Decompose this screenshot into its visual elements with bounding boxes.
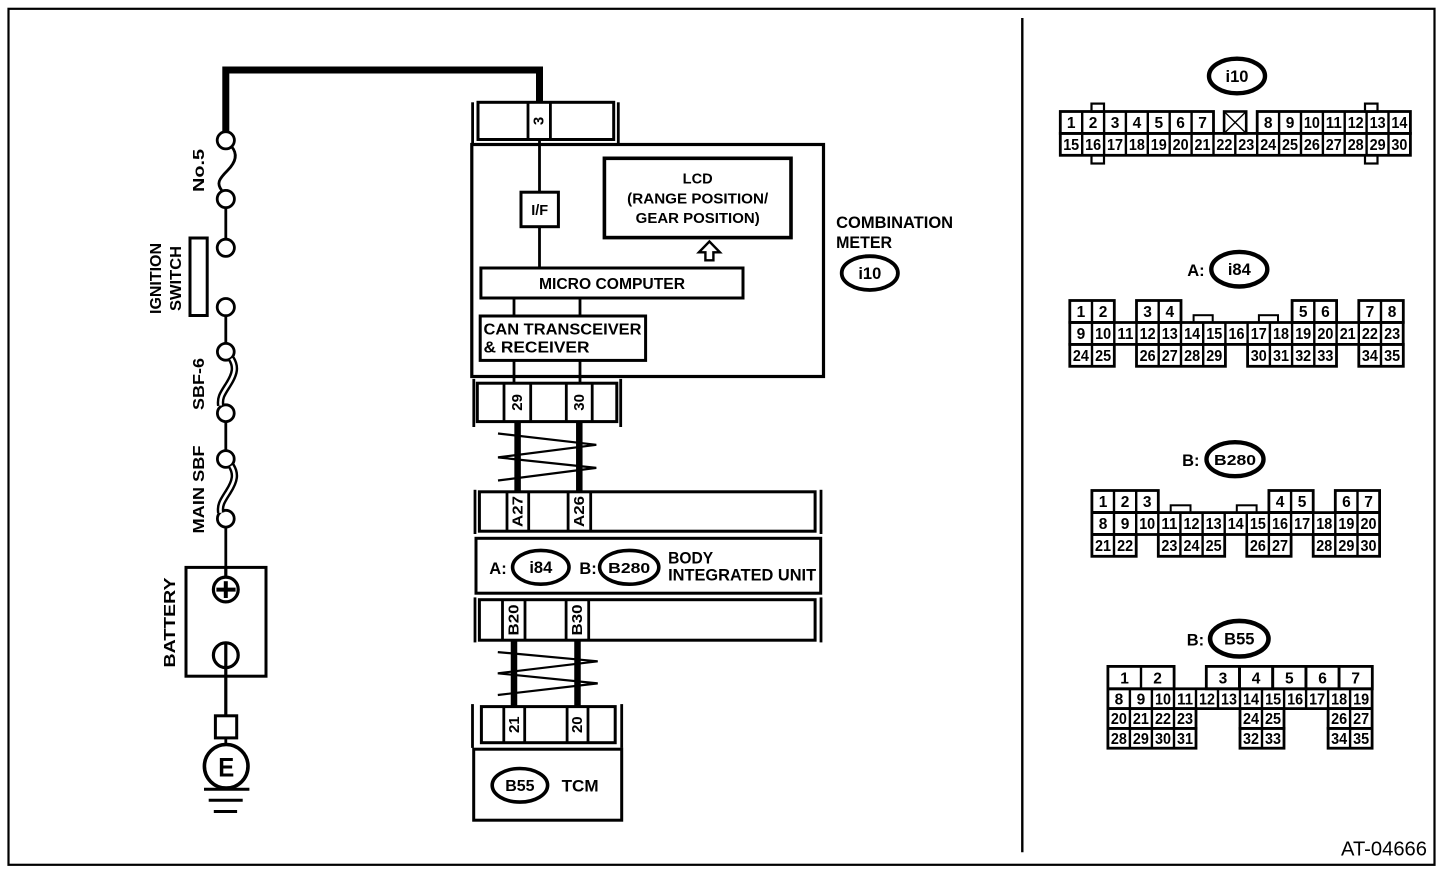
svg-text:B:: B:	[1182, 452, 1199, 470]
svg-text:10: 10	[1095, 326, 1111, 343]
svg-text:21: 21	[1340, 326, 1356, 343]
svg-text:27: 27	[1353, 711, 1369, 728]
connector A27/A26 (body integrated unit, top)	[475, 490, 821, 534]
svg-text:9: 9	[1121, 516, 1130, 533]
svg-text:28: 28	[1111, 731, 1127, 748]
svg-text:2: 2	[1099, 304, 1108, 321]
svg-text:5: 5	[1285, 670, 1294, 687]
svg-text:10: 10	[1304, 115, 1320, 132]
body integrated unit box	[476, 538, 821, 593]
wire	[224, 527, 227, 567]
svg-text:GEAR POSITION): GEAR POSITION)	[636, 211, 760, 227]
connector rails	[474, 597, 477, 642]
svg-text:9: 9	[1077, 326, 1086, 343]
svg-text:TCM: TCM	[562, 777, 599, 795]
svg-text:13: 13	[1221, 691, 1237, 708]
svg-text:18: 18	[1273, 326, 1289, 343]
svg-text:32: 32	[1295, 348, 1311, 365]
svg-text:7: 7	[1364, 494, 1373, 511]
svg-text:3: 3	[1219, 670, 1228, 687]
connector oval B55	[492, 769, 547, 803]
wire	[224, 208, 227, 240]
svg-text:23: 23	[1161, 538, 1177, 555]
svg-text:25: 25	[1095, 348, 1111, 365]
svg-text:26: 26	[1304, 137, 1320, 154]
svg-text:4: 4	[1165, 304, 1174, 321]
connector oval i10 (combination meter)	[842, 256, 898, 290]
connector oval B280	[600, 550, 659, 584]
svg-text:33: 33	[1317, 348, 1333, 365]
svg-text:28: 28	[1348, 137, 1364, 154]
svg-text:11: 11	[1326, 115, 1342, 132]
svg-text:B:: B:	[579, 560, 596, 578]
svg-text:A26: A26	[571, 496, 588, 527]
svg-text:3: 3	[1143, 494, 1152, 511]
combination meter box	[472, 145, 824, 377]
svg-text:20: 20	[1361, 516, 1377, 533]
svg-text:23: 23	[1177, 711, 1193, 728]
svg-text:12: 12	[1140, 326, 1156, 343]
svg-text:12: 12	[1184, 516, 1200, 533]
connector 21/20 (TCM)	[473, 704, 622, 748]
svg-text:B55: B55	[1224, 631, 1254, 649]
svg-text:14: 14	[1243, 691, 1259, 708]
svg-text:B280: B280	[1214, 452, 1256, 469]
I/F block U-IF	[521, 192, 558, 227]
connector B20/B30 (body integrated unit, bottom)	[475, 597, 821, 642]
svg-text:15: 15	[1250, 516, 1266, 533]
svg-text:16: 16	[1287, 691, 1303, 708]
svg-text:20: 20	[1111, 711, 1127, 728]
svg-text:16: 16	[1229, 326, 1245, 343]
LCD block	[604, 158, 791, 237]
twisted pair wires pins 29/30 to A27/A26	[514, 422, 521, 492]
svg-text:i84: i84	[529, 559, 553, 577]
svg-text:31: 31	[1273, 348, 1289, 365]
svg-text:34: 34	[1331, 731, 1347, 748]
svg-text:14: 14	[1184, 326, 1200, 343]
svg-text:21: 21	[1195, 137, 1211, 154]
svg-text:3: 3	[531, 117, 548, 125]
wire micro computer to CAN	[513, 298, 516, 316]
svg-text:13: 13	[1206, 516, 1222, 533]
fuse MAIN SBF	[217, 451, 234, 528]
wire CAN to pin 29	[513, 360, 516, 383]
svg-text:20: 20	[569, 716, 586, 733]
svg-text:7: 7	[1351, 670, 1360, 687]
svg-text:6: 6	[1321, 304, 1330, 321]
svg-text:2: 2	[1121, 494, 1130, 511]
svg-text:9: 9	[1286, 115, 1295, 132]
connector diagram B280 pin grid	[1092, 491, 1380, 557]
svg-text:I/F: I/F	[531, 203, 548, 219]
svg-text:CAN TRANSCEIVER: CAN TRANSCEIVER	[484, 321, 642, 338]
svg-text:29: 29	[1206, 348, 1222, 365]
svg-text:16: 16	[1085, 137, 1101, 154]
svg-text:& RECEIVER: & RECEIVER	[484, 339, 590, 356]
connector diagram B: B280 label	[1182, 442, 1263, 476]
connector diagram A: i84 label	[1187, 252, 1267, 287]
svg-text:AT-04666: AT-04666	[1341, 839, 1427, 861]
svg-text:11: 11	[1117, 326, 1133, 343]
svg-text:LCD: LCD	[683, 172, 713, 188]
svg-text:BATTERY: BATTERY	[162, 577, 179, 667]
svg-text:11: 11	[1161, 516, 1177, 533]
svg-text:30: 30	[1155, 731, 1171, 748]
svg-text:17: 17	[1251, 326, 1267, 343]
svg-text:i84: i84	[1228, 261, 1252, 279]
svg-text:29: 29	[1338, 538, 1354, 555]
svg-text:MAIN SBF: MAIN SBF	[191, 445, 208, 533]
svg-text:24: 24	[1260, 137, 1276, 154]
svg-text:28: 28	[1184, 348, 1200, 365]
svg-text:6: 6	[1176, 115, 1185, 132]
connector i10 pins 29/30 (bottom connector of combination meter)	[474, 379, 621, 427]
svg-text:29: 29	[1133, 731, 1149, 748]
svg-text:15: 15	[1206, 326, 1222, 343]
svg-text:35: 35	[1353, 731, 1369, 748]
svg-text:26: 26	[1140, 348, 1156, 365]
svg-text:24: 24	[1243, 711, 1259, 728]
svg-text:21: 21	[506, 716, 523, 733]
svg-text:IGNITION: IGNITION	[148, 243, 165, 314]
svg-text:B30: B30	[569, 605, 586, 636]
ignition switch	[190, 238, 234, 316]
svg-text:30: 30	[1361, 538, 1377, 555]
svg-text:6: 6	[1342, 494, 1351, 511]
connector diagram B55 pin grid	[1108, 666, 1372, 748]
svg-text:10: 10	[1139, 516, 1155, 533]
connector oval i84	[513, 550, 569, 584]
svg-text:A27: A27	[509, 496, 526, 527]
svg-text:24: 24	[1073, 348, 1089, 365]
svg-text:17: 17	[1294, 516, 1310, 533]
svg-text:13: 13	[1162, 326, 1178, 343]
svg-text:8: 8	[1264, 115, 1273, 132]
svg-text:B55: B55	[505, 778, 534, 795]
CAN transceiver & receiver block	[480, 316, 645, 360]
wire	[224, 316, 227, 344]
svg-text:13: 13	[1370, 115, 1386, 132]
svg-text:9: 9	[1137, 691, 1146, 708]
battery	[186, 567, 266, 715]
svg-text:18: 18	[1316, 516, 1332, 533]
svg-text:27: 27	[1326, 137, 1342, 154]
svg-text:2: 2	[1089, 115, 1098, 132]
svg-text:19: 19	[1353, 691, 1369, 708]
svg-text:18: 18	[1331, 691, 1347, 708]
svg-text:14: 14	[1228, 516, 1244, 533]
svg-text:22: 22	[1216, 137, 1232, 154]
svg-text:E: E	[218, 752, 234, 782]
svg-text:25: 25	[1206, 538, 1222, 555]
svg-text:INTEGRATED UNIT: INTEGRATED UNIT	[668, 567, 816, 585]
svg-text:22: 22	[1362, 326, 1378, 343]
svg-text:15: 15	[1063, 137, 1079, 154]
svg-text:5: 5	[1298, 494, 1307, 511]
svg-text:27: 27	[1162, 348, 1178, 365]
svg-text:COMBINATION: COMBINATION	[836, 214, 953, 232]
svg-text:29: 29	[1370, 137, 1386, 154]
svg-text:2: 2	[1153, 670, 1162, 687]
fuse SBF-6	[217, 343, 234, 421]
wire pin3 to I/F	[538, 140, 541, 193]
svg-text:SBF-6: SBF-6	[191, 358, 208, 410]
svg-text:25: 25	[1282, 137, 1298, 154]
svg-text:26: 26	[1331, 711, 1347, 728]
svg-text:SWITCH: SWITCH	[168, 246, 185, 311]
svg-text:25: 25	[1265, 711, 1281, 728]
svg-text:12: 12	[1348, 115, 1364, 132]
svg-text:21: 21	[1095, 538, 1111, 555]
twist marks	[498, 652, 598, 695]
svg-text:30: 30	[1391, 137, 1407, 154]
svg-text:32: 32	[1243, 731, 1259, 748]
svg-text:METER: METER	[836, 234, 892, 252]
connector rails	[474, 490, 477, 534]
wire micro computer to CAN	[579, 298, 582, 316]
fuse No.5	[217, 132, 235, 208]
svg-text:A:: A:	[489, 560, 506, 578]
connector diagram B: B55 label	[1187, 621, 1269, 657]
svg-text:22: 22	[1117, 538, 1133, 555]
svg-text:7: 7	[1366, 304, 1375, 321]
svg-text:19: 19	[1151, 137, 1167, 154]
svg-text:B280: B280	[608, 560, 650, 577]
svg-text:19: 19	[1295, 326, 1311, 343]
svg-text:22: 22	[1155, 711, 1171, 728]
svg-text:i10: i10	[1226, 68, 1249, 86]
svg-text:No.5: No.5	[191, 149, 208, 192]
svg-text:8: 8	[1388, 304, 1397, 321]
twist marks	[498, 434, 596, 481]
svg-text:5: 5	[1299, 304, 1308, 321]
svg-text:15: 15	[1265, 691, 1281, 708]
svg-text:B:: B:	[1187, 632, 1204, 650]
svg-text:12: 12	[1199, 691, 1215, 708]
blocked pin (X)	[1224, 112, 1246, 134]
connector diagram i10 oval	[1209, 59, 1265, 94]
svg-text:BODY: BODY	[668, 550, 713, 568]
connector diagram i84 pin grid	[1070, 301, 1404, 367]
connector i10 pin 3 (top connector of combination meter)	[473, 102, 619, 144]
divider line	[1021, 18, 1023, 852]
svg-text:29: 29	[509, 394, 526, 411]
svg-text:A:: A:	[1187, 262, 1204, 280]
svg-text:18: 18	[1129, 137, 1145, 154]
connector rails	[472, 379, 475, 427]
svg-text:28: 28	[1316, 538, 1332, 555]
wire: thick battery feed from fuse No.5 to combination meter pin 3	[226, 70, 540, 132]
svg-text:7: 7	[1198, 115, 1207, 132]
svg-text:4: 4	[1252, 670, 1261, 687]
svg-text:27: 27	[1272, 538, 1288, 555]
svg-text:1: 1	[1099, 494, 1108, 511]
arrow up into LCD	[699, 242, 720, 261]
svg-text:1: 1	[1120, 670, 1129, 687]
svg-text:23: 23	[1238, 137, 1254, 154]
wire CAN to pin 30	[579, 360, 582, 383]
TCM box	[474, 749, 622, 820]
svg-text:i10: i10	[858, 265, 881, 283]
connector rails	[471, 102, 474, 144]
svg-text:33: 33	[1265, 731, 1281, 748]
svg-text:3: 3	[1111, 115, 1120, 132]
svg-text:MICRO COMPUTER: MICRO COMPUTER	[539, 276, 685, 293]
svg-text:30: 30	[1251, 348, 1267, 365]
svg-text:16: 16	[1272, 516, 1288, 533]
svg-text:35: 35	[1384, 348, 1400, 365]
svg-text:10: 10	[1155, 691, 1171, 708]
svg-text:19: 19	[1338, 516, 1354, 533]
svg-text:30: 30	[571, 394, 588, 411]
svg-text:14: 14	[1391, 115, 1407, 132]
svg-text:20: 20	[1317, 326, 1333, 343]
svg-text:21: 21	[1133, 711, 1149, 728]
twisted pair wires B20/B30 to TCM 21/20	[511, 640, 518, 706]
ground E	[204, 716, 249, 812]
svg-text:8: 8	[1115, 691, 1124, 708]
svg-text:11: 11	[1177, 691, 1193, 708]
micro computer block	[481, 268, 743, 298]
svg-text:8: 8	[1099, 516, 1108, 533]
svg-text:31: 31	[1177, 731, 1193, 748]
connector diagram i10 pin grid	[1060, 104, 1410, 164]
svg-text:4: 4	[1276, 494, 1285, 511]
wire I/F to micro computer	[538, 227, 541, 268]
svg-text:B20: B20	[505, 605, 522, 636]
wire	[224, 422, 227, 451]
connector rails	[471, 704, 474, 748]
svg-text:20: 20	[1173, 137, 1189, 154]
svg-text:17: 17	[1107, 137, 1123, 154]
svg-text:1: 1	[1067, 115, 1076, 132]
svg-text:24: 24	[1184, 538, 1200, 555]
svg-text:34: 34	[1362, 348, 1378, 365]
svg-text:1: 1	[1077, 304, 1086, 321]
svg-text:23: 23	[1384, 326, 1400, 343]
svg-text:4: 4	[1133, 115, 1142, 132]
svg-text:17: 17	[1309, 691, 1325, 708]
svg-text:3: 3	[1143, 304, 1152, 321]
svg-text:5: 5	[1154, 115, 1163, 132]
svg-text:26: 26	[1250, 538, 1266, 555]
svg-text:6: 6	[1318, 670, 1327, 687]
svg-text:(RANGE POSITION/: (RANGE POSITION/	[627, 191, 768, 207]
